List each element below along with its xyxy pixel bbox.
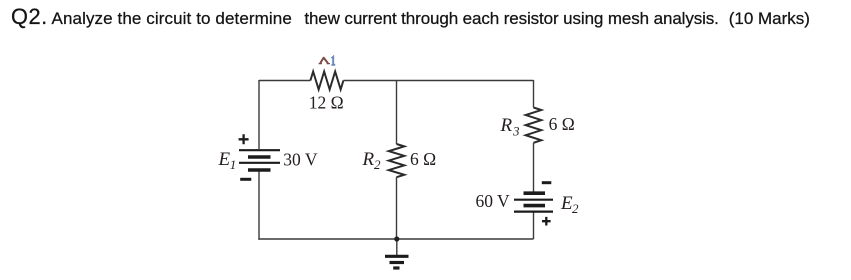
plus sign E2 bbox=[542, 217, 551, 226]
svg-text:2: 2 bbox=[572, 201, 579, 216]
wire left branch upper bbox=[258, 80, 260, 149]
svg-text:R: R bbox=[362, 149, 375, 170]
wire right branch middle bbox=[533, 143, 535, 192]
plus sign E1 bbox=[239, 134, 249, 144]
svg-text:1: 1 bbox=[230, 157, 237, 172]
svg-text:6 Ω: 6 Ω bbox=[549, 114, 575, 134]
battery E1 plates bbox=[239, 150, 280, 170]
label R1 (clipped bottom of R with subscript 1) bbox=[319, 57, 336, 65]
resistor R1 bbox=[310, 72, 343, 90]
wire bottom bbox=[258, 238, 533, 240]
svg-text:12 Ω: 12 Ω bbox=[309, 93, 344, 113]
resistor R2 bbox=[389, 144, 405, 177]
ground symbol bbox=[385, 256, 409, 268]
battery E2 plates bbox=[514, 193, 553, 211]
minus sign E2 bbox=[542, 181, 552, 184]
svg-text:2: 2 bbox=[374, 157, 381, 172]
wire top-left segment bbox=[259, 80, 310, 82]
svg-text:R: R bbox=[500, 115, 513, 136]
wire top-right segment bbox=[343, 80, 533, 82]
wire right branch lower bbox=[533, 213, 535, 240]
svg-text:3: 3 bbox=[512, 124, 520, 139]
wire middle branch upper bbox=[396, 81, 398, 145]
junction node at ground bbox=[394, 236, 399, 241]
svg-text:30 V: 30 V bbox=[283, 150, 318, 170]
title text bbox=[11, 4, 810, 30]
resistor R3 bbox=[526, 108, 542, 143]
wire left branch lower bbox=[258, 171, 260, 240]
wire right branch upper bbox=[533, 80, 535, 108]
svg-text:E: E bbox=[218, 149, 231, 170]
svg-text:6 Ω: 6 Ω bbox=[410, 149, 436, 169]
minus sign E1 bbox=[240, 178, 251, 181]
wire middle branch lower bbox=[396, 177, 398, 239]
wire ground stub bbox=[396, 239, 398, 255]
svg-text:60 V: 60 V bbox=[476, 191, 511, 211]
